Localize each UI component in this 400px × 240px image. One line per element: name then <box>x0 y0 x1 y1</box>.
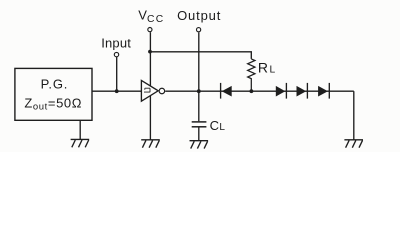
inverter U1 schmitt buffer <box>141 80 164 101</box>
node output junction <box>197 89 201 93</box>
svg-text:P.G.: P.G. <box>41 76 69 91</box>
diode D4 (pointing right) <box>318 83 329 99</box>
diode D2 (pointing right) <box>276 83 287 99</box>
Output terminal circle <box>197 28 201 32</box>
wire right corner down <box>353 91 355 139</box>
ground below P.G. box <box>71 120 90 147</box>
capacitor CL <box>192 91 207 141</box>
node input junction <box>115 89 119 93</box>
ground right <box>344 140 363 148</box>
wire P.G. output to inverter input <box>92 90 141 92</box>
wire VCC to RL top <box>150 52 251 59</box>
wire Input terminal to junction <box>116 57 118 91</box>
wire VCC vertical <box>149 32 151 139</box>
wire Output vertical <box>198 32 200 91</box>
resistor RL <box>248 59 255 91</box>
svg-text:Input: Input <box>101 35 131 50</box>
VCC terminal circle <box>148 28 152 32</box>
P.G. box <box>15 68 92 120</box>
ground below CL <box>190 141 209 149</box>
Input terminal circle <box>114 52 118 56</box>
wire inverter output to right corner <box>165 90 354 92</box>
diode D1 (pointing left) <box>221 83 232 99</box>
diode D3 (pointing right) <box>297 83 308 99</box>
svg-text:Output: Output <box>177 8 221 23</box>
node VCC junction <box>148 50 152 54</box>
ground below inverter <box>141 140 160 148</box>
node RL bottom junction <box>250 89 254 93</box>
